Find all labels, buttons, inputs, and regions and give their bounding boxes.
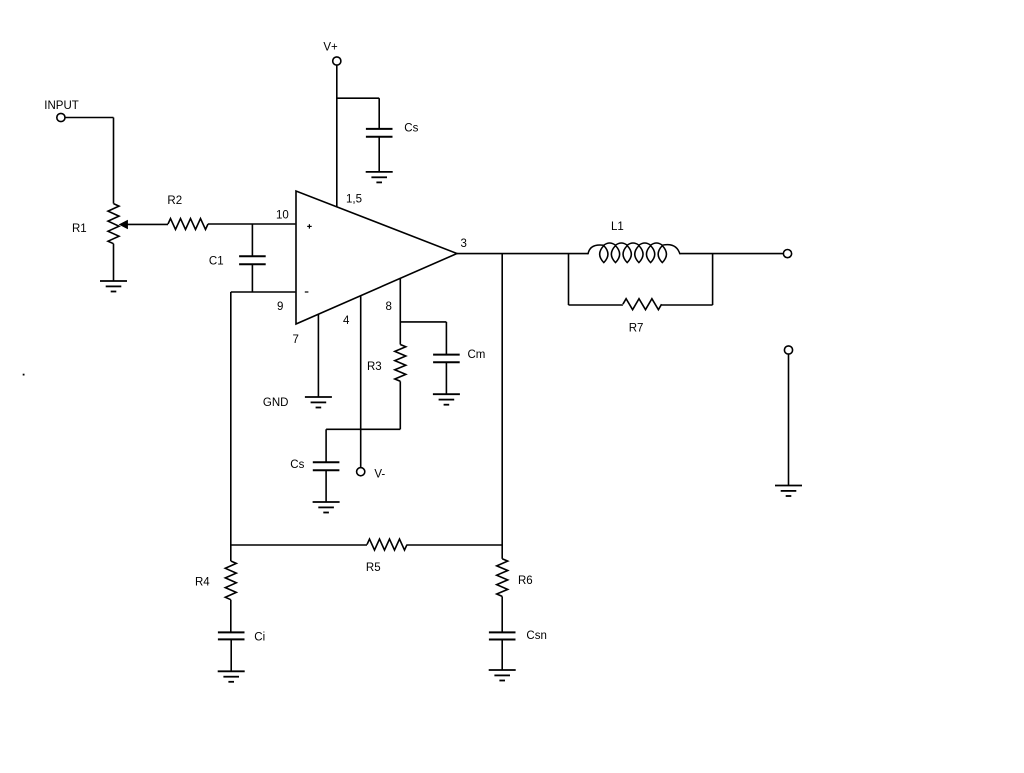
svg-text:Cm: Cm <box>468 349 486 361</box>
svg-text:V+: V+ <box>323 42 338 54</box>
svg-text:R5: R5 <box>366 562 381 574</box>
svg-text:7: 7 <box>293 334 299 346</box>
svg-text:V-: V- <box>374 469 385 481</box>
wire pin 8 down <box>399 278 401 344</box>
op-amp - input mark <box>305 291 309 293</box>
wire to Cs bottom <box>326 428 400 430</box>
svg-text:R1: R1 <box>72 223 87 235</box>
wire V+ to pin 1,5 <box>336 65 338 207</box>
svg-text:Cs: Cs <box>404 122 418 134</box>
svg-text:R4: R4 <box>195 576 210 588</box>
wire R7 right up <box>712 254 714 305</box>
svg-text:8: 8 <box>386 301 392 313</box>
svg-text:10: 10 <box>276 210 289 222</box>
node return terminal <box>784 346 792 354</box>
wire branch to Cm <box>400 321 446 323</box>
wire wiper to R2 <box>127 223 168 225</box>
svg-text:R7: R7 <box>629 322 644 334</box>
wire pin 9 <box>231 291 296 293</box>
svg-text:9: 9 <box>277 301 283 313</box>
wire R2 to op-amp pin 10 <box>208 223 295 225</box>
wire pin 4 to V- <box>360 296 362 468</box>
ground below Cs bottom <box>313 502 340 513</box>
svg-text:C1: C1 <box>209 256 224 268</box>
ground below Csn <box>489 670 516 681</box>
svg-text:Ci: Ci <box>254 632 265 644</box>
svg-text:Cs: Cs <box>290 459 304 471</box>
ground below Cm <box>433 394 460 405</box>
ground below Ci <box>218 671 245 682</box>
svg-text:INPUT: INPUT <box>44 100 79 112</box>
svg-text:Csn: Csn <box>526 630 546 642</box>
svg-text:1,5: 1,5 <box>346 194 362 206</box>
wire feedback from pin 9 down <box>230 292 232 545</box>
node V- terminal <box>357 468 365 476</box>
svg-text:R3: R3 <box>367 361 382 373</box>
wire output pin 3 <box>457 253 588 255</box>
wire junction down to R7 left <box>568 254 570 305</box>
wire pin 7 to ground <box>317 314 319 397</box>
svg-text:GND: GND <box>263 397 289 409</box>
wire L1 to output terminal <box>680 253 783 255</box>
op-amp U1 triangle <box>296 191 457 324</box>
svg-text:3: 3 <box>461 238 467 250</box>
wiper arrow of R1 <box>119 220 127 228</box>
wire R1 bottom to ground <box>113 244 115 281</box>
wire branch to Cs <box>337 97 379 99</box>
wire R3 bottom <box>399 381 401 429</box>
svg-text:4: 4 <box>343 315 350 327</box>
ground below R1 <box>100 281 127 292</box>
svg-text:R6: R6 <box>518 575 533 587</box>
op-amp + input mark <box>307 224 312 228</box>
stray dot mark <box>23 374 25 376</box>
svg-text:L1: L1 <box>611 221 624 233</box>
wire input to R1 top <box>65 117 113 119</box>
ground below Cs top <box>366 172 393 183</box>
wire terminal to ground <box>788 354 790 485</box>
node output terminal <box>783 250 791 258</box>
wire feedback from output down <box>501 254 503 545</box>
ground GND pin 7 <box>305 397 332 408</box>
svg-text:R2: R2 <box>167 195 182 207</box>
ground below return terminal <box>775 486 802 497</box>
